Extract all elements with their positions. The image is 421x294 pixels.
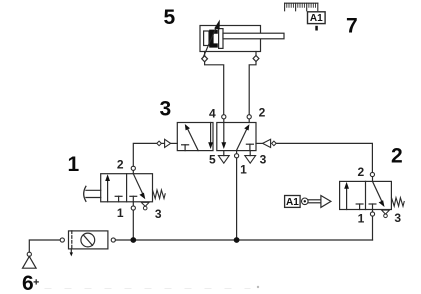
small plus mark after 6 [34, 280, 38, 284]
svg-text:3: 3 [155, 207, 162, 221]
svg-text:2: 2 [117, 158, 124, 172]
valve V3 5/2 body left square [177, 123, 213, 151]
svg-text:1: 1 [68, 153, 80, 176]
supply bus wire [115, 239, 372, 241]
cylinder stroke arrow [203, 20, 220, 58]
V1 port 1 connection circle [131, 202, 135, 210]
air service unit body [69, 231, 108, 249]
V2 actuator stem and pilot triangle [308, 196, 331, 208]
V3 port 1 connection circle [235, 151, 239, 158]
V1 right square flow path 2-3 arrow [133, 174, 145, 200]
cylinder C1 body [200, 26, 261, 52]
V1 return spring [153, 190, 166, 199]
cylinder port B (right) diamond [253, 52, 259, 62]
V2 port 3 exhaust [382, 210, 390, 218]
V3 port 4 connection circle [222, 115, 226, 123]
V3 right square flow path 1-2 arrow [236, 124, 249, 150]
service unit outlet circle [111, 238, 115, 242]
V2 port 1 connection circle [370, 210, 374, 217]
wire V1 port2 up to V3 left pilot [133, 143, 157, 166]
compressed air supply [23, 252, 37, 268]
V3 port 5 exhaust triangle [218, 151, 229, 164]
V3 port 2 connection circle [247, 115, 251, 123]
V1 left square blocked port 3 (T) [115, 196, 122, 202]
service unit drain arrow [70, 249, 73, 257]
svg-text:5: 5 [164, 6, 176, 29]
V2 right square flow path 2-3 arrow [373, 181, 385, 207]
svg-text:7: 7 [346, 15, 358, 38]
svg-text:1: 1 [117, 206, 124, 220]
V3 left square flow path 2-3 arrow [208, 123, 213, 150]
valve V2 3/2 body [340, 181, 392, 209]
V3 port 3 exhaust triangle [245, 151, 256, 164]
V2 actuator label box A1 [285, 196, 301, 209]
svg-text:3: 3 [260, 153, 267, 167]
svg-text:3: 3 [160, 97, 172, 120]
V3 left square flow path 1-4 arrow [185, 124, 198, 151]
V1 pushbutton actuator [84, 186, 101, 201]
valve V3 5/2 body right square [217, 123, 256, 151]
wire air supply to service unit [29, 240, 60, 252]
ruler marker box A1 [308, 12, 326, 31]
svg-text:4: 4 [209, 106, 216, 120]
cylinder piston plate [219, 29, 223, 49]
svg-text:A1: A1 [310, 13, 323, 24]
cylinder magnetic piston (black C) [209, 30, 218, 48]
junction node at valve3 [234, 237, 240, 243]
wire V3 port1 down to bus [236, 158, 238, 240]
V1 port 3 exhaust [141, 202, 149, 210]
svg-text:1: 1 [240, 163, 247, 177]
svg-text:1: 1 [358, 211, 365, 225]
wire V2 port1 down to bus [372, 216, 374, 240]
V3 left square blocked port 5 (T) [182, 145, 189, 151]
svg-text:2: 2 [391, 145, 403, 168]
wire V3 right pilot to valve2 port2 [276, 143, 372, 172]
svg-text:6: 6 [22, 272, 34, 294]
V3 right square flow path 4-5 arrow [221, 123, 226, 150]
V1 right square blocked port 1 (T) [130, 196, 137, 202]
V1 left square flow path 1-2 arrow [105, 174, 110, 202]
cylinder piston rod [223, 33, 284, 39]
V2 return spring [392, 198, 405, 207]
svg-text:3: 3 [394, 211, 401, 225]
valve V1 3/2 body [101, 174, 153, 202]
wire cylinder B to valve3 port2 [249, 62, 256, 115]
svg-text:2: 2 [357, 165, 364, 179]
service unit inlet circle [60, 238, 64, 242]
cylinder port A (left) diamond [202, 52, 208, 62]
V2 right square blocked port 1 (T) [369, 204, 376, 210]
V2 left square flow path 1-2 arrow [344, 182, 349, 210]
junction node at valve1 [130, 237, 136, 243]
V3 right pilot symbol [256, 139, 276, 147]
ruler scale (component 7) [285, 3, 318, 11]
wire V1 port1 down to bus junction [132, 210, 134, 240]
faint artifact marks bottom [45, 288, 250, 290]
V2 port 2 connection circle [370, 172, 374, 181]
svg-text:5: 5 [209, 153, 216, 167]
V3 left pilot symbol [157, 139, 178, 147]
wire cylinder A to valve3 port4 [205, 62, 224, 115]
V1 port 2 connection circle [131, 166, 135, 174]
V3 right square blocked port 3 (T) [246, 144, 253, 150]
V2 left square blocked port 3 (T) [356, 204, 363, 210]
svg-text:2: 2 [259, 106, 266, 120]
svg-text:A1: A1 [286, 197, 299, 208]
V2 actuator roller [302, 198, 309, 205]
